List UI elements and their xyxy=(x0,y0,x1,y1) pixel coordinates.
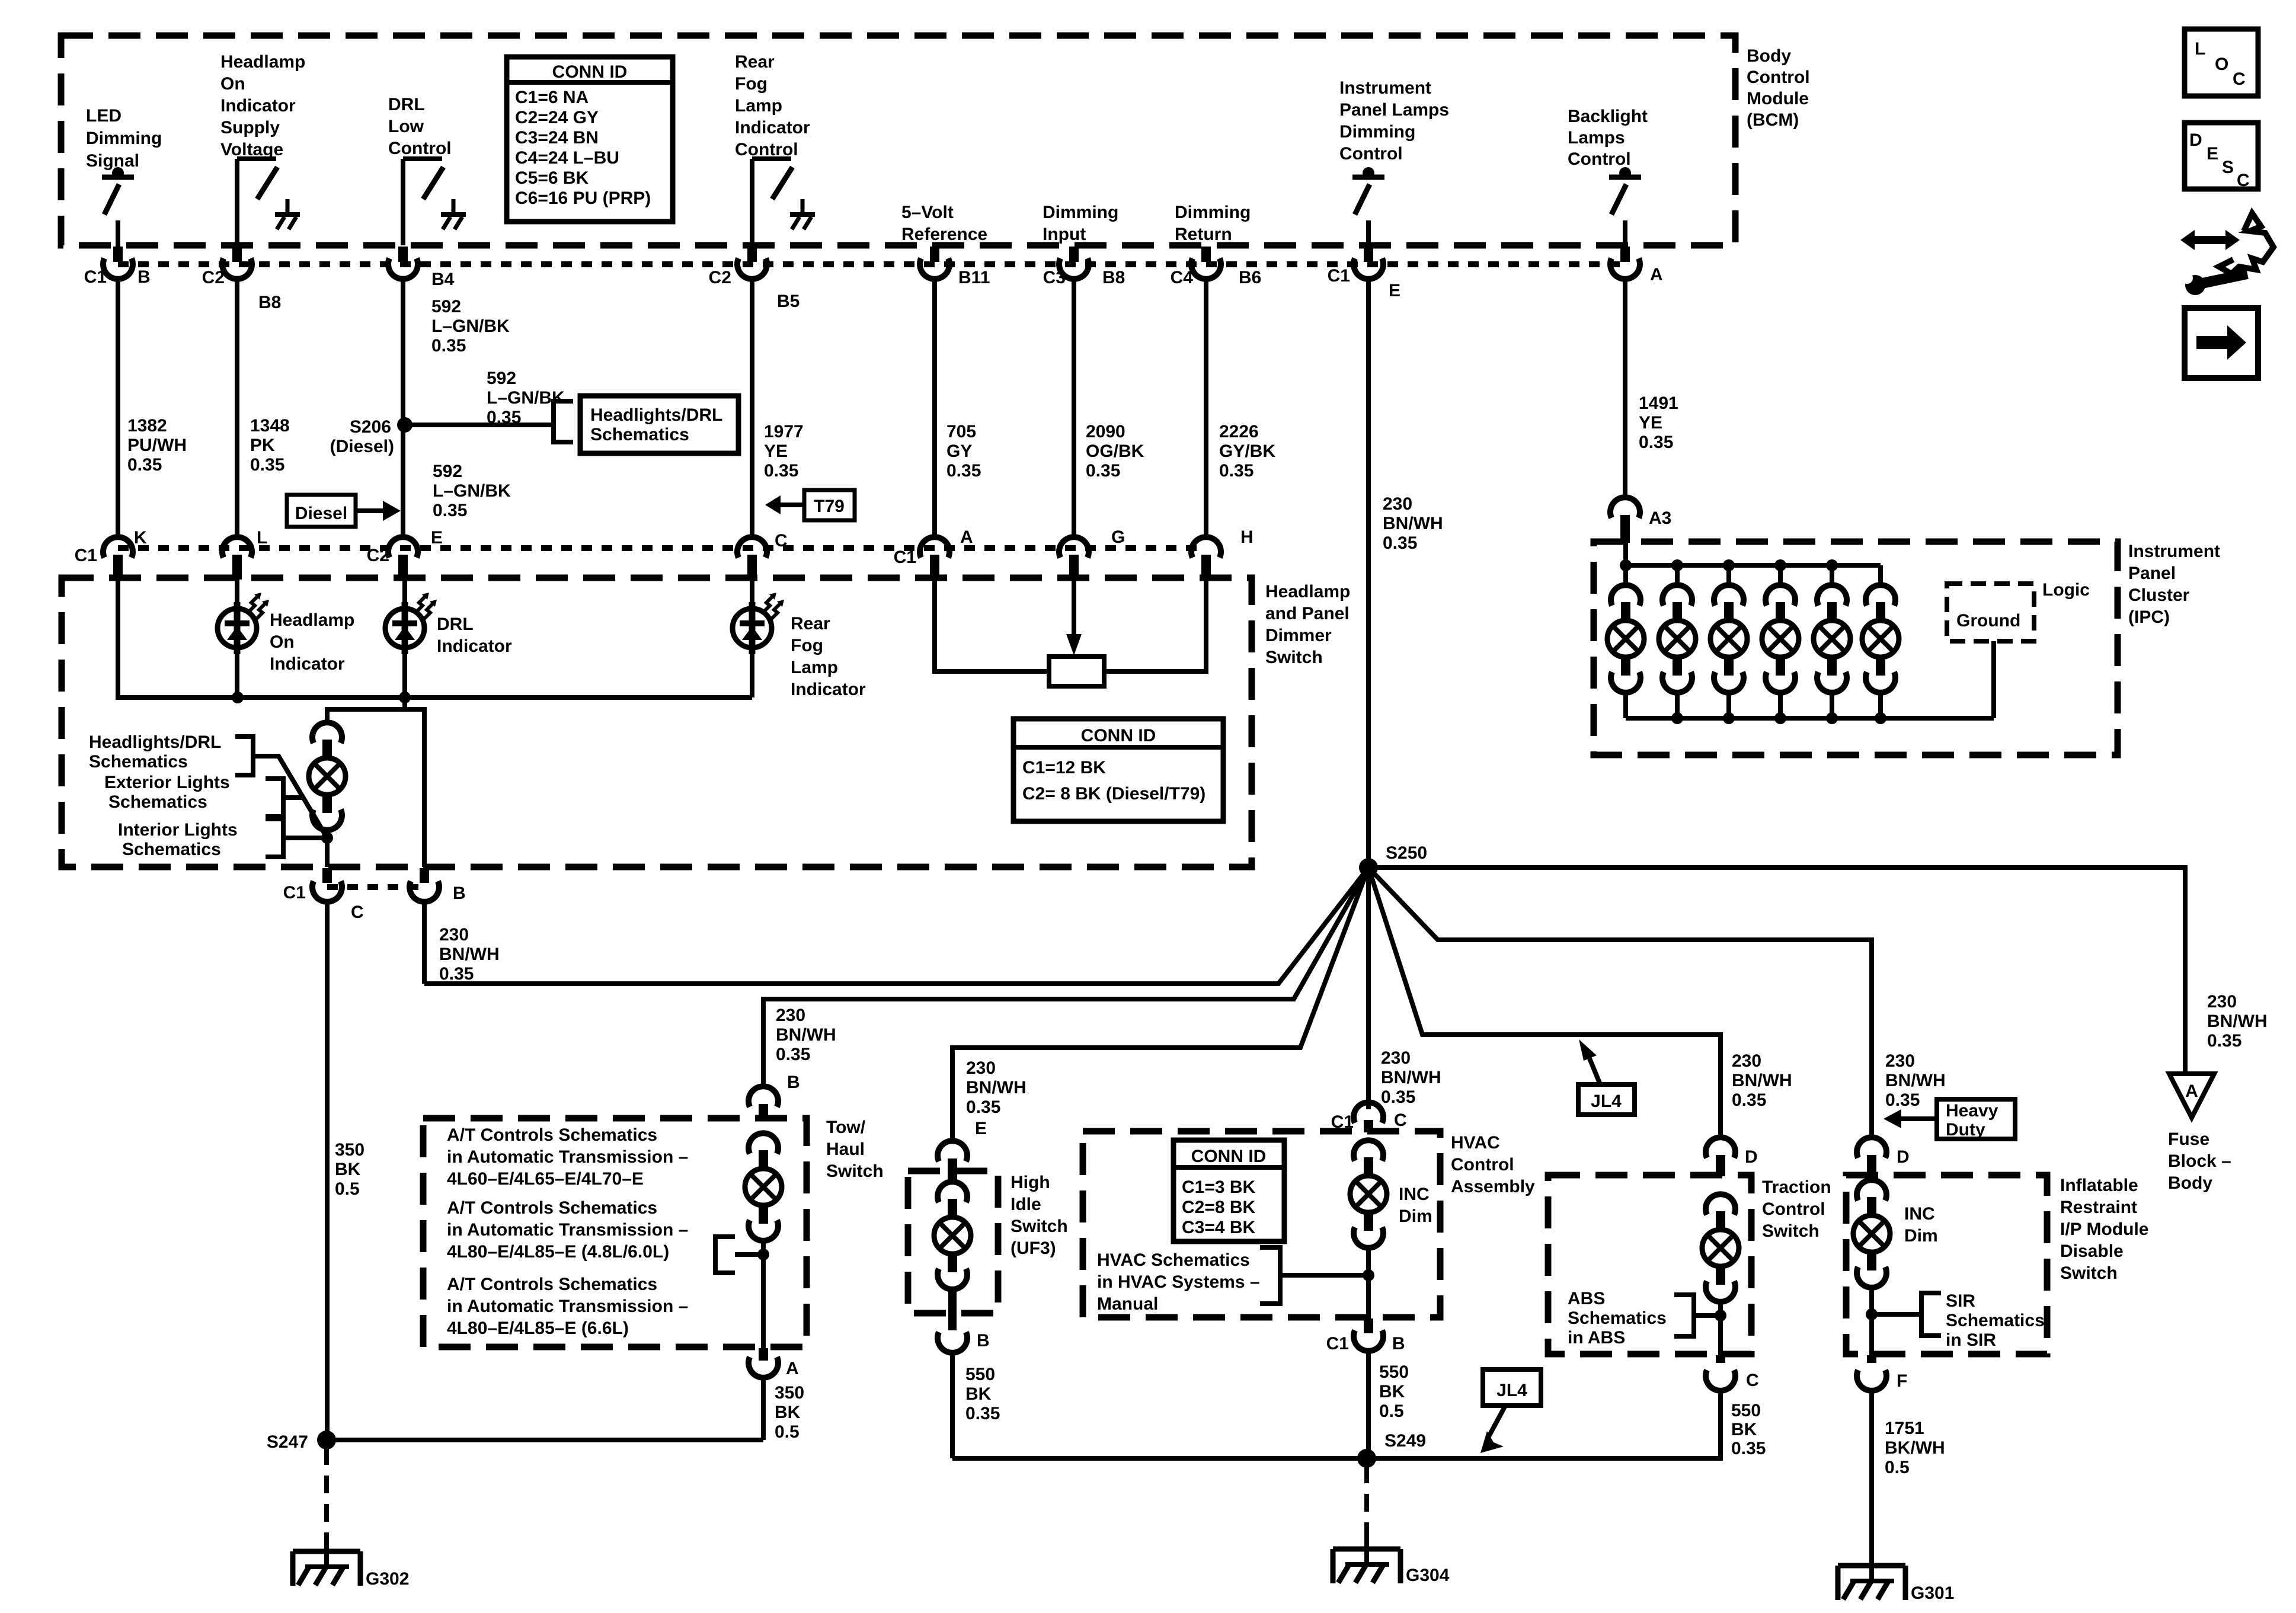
svg-text:C: C xyxy=(775,531,788,551)
svg-text:Dimming: Dimming xyxy=(1339,122,1415,142)
svg-text:1348: 1348 xyxy=(250,416,290,436)
connector pin K (dimmer switch row) xyxy=(103,537,133,580)
wire 350 BK to S247 bus xyxy=(761,1377,766,1440)
svg-text:C: C xyxy=(2237,171,2250,190)
svg-text:Dimmer: Dimmer xyxy=(1265,626,1332,645)
svg-text:A: A xyxy=(960,527,973,547)
svg-text:BN/WH: BN/WH xyxy=(776,1025,836,1045)
wire from interior bracket to node xyxy=(283,836,327,840)
svg-text:JL4: JL4 xyxy=(1496,1381,1527,1400)
forward arrow legend icon xyxy=(2185,308,2258,378)
connector row 1 dotted harness line xyxy=(118,261,1625,267)
svg-text:0.35: 0.35 xyxy=(1731,1439,1766,1458)
svg-text:Supply: Supply xyxy=(220,118,280,137)
svg-text:230: 230 xyxy=(439,925,469,945)
bracket for ABS schematics xyxy=(1674,1295,1694,1336)
svg-text:L–GN/BK: L–GN/BK xyxy=(433,481,511,501)
svg-text:Body: Body xyxy=(2168,1173,2212,1193)
CONN ID table (dimmer switch) xyxy=(1013,719,1223,821)
wire below HVAC lamp xyxy=(1366,1247,1371,1318)
IPC lamp return bus xyxy=(1626,716,1994,721)
svg-text:Switch: Switch xyxy=(826,1161,884,1181)
Exterior Lights Schematics reference label xyxy=(104,773,230,812)
High Idle Switch dashed box xyxy=(908,1171,998,1313)
svg-text:YE: YE xyxy=(764,441,788,461)
svg-text:C3=4 BK: C3=4 BK xyxy=(1182,1218,1256,1237)
svg-text:D: D xyxy=(1897,1147,1910,1167)
wire 1491 YE (backlight lamps control) xyxy=(1623,279,1627,497)
svg-text:H: H xyxy=(1240,527,1253,547)
svg-text:E: E xyxy=(2207,144,2218,164)
svg-text:Tow/: Tow/ xyxy=(826,1118,866,1137)
svg-text:Module: Module xyxy=(1747,89,1809,108)
svg-text:Fog: Fog xyxy=(735,74,768,94)
wire 550 BK from HVAC to S249 xyxy=(1366,1350,1371,1458)
svg-text:BK: BK xyxy=(965,1384,992,1404)
connector row 2 dotted harness line xyxy=(118,545,1206,551)
junction on bus at DRL indicator xyxy=(399,692,411,703)
bracket to Headlights/DRL Schematics reference box xyxy=(554,401,573,442)
BCM label xyxy=(1747,46,1810,130)
svg-text:Block –: Block – xyxy=(2168,1151,2231,1171)
connector pin E (dimmer switch row) xyxy=(388,537,418,580)
svg-text:230: 230 xyxy=(966,1058,996,1078)
connector pin B8 (BCM row) xyxy=(1059,247,1089,279)
svg-text:550: 550 xyxy=(1731,1401,1761,1420)
wire from HVAC bracket to lamp wire xyxy=(1280,1273,1368,1278)
svg-text:Dim: Dim xyxy=(1904,1226,1938,1246)
Headlamp On Indicator LED xyxy=(218,593,269,654)
Dimming Return label xyxy=(1175,203,1251,244)
svg-text:Lamps: Lamps xyxy=(1568,128,1625,148)
connector pin D (inflatable restraint) xyxy=(1857,1137,1886,1176)
Body Control Module (BCM) dashed box xyxy=(61,36,1735,245)
svg-text:A/T Controls Schematics: A/T Controls Schematics xyxy=(447,1125,657,1145)
svg-text:0.35: 0.35 xyxy=(127,455,162,475)
LED dimming signal switch (BCM internal) xyxy=(102,167,134,248)
svg-text:D: D xyxy=(2189,130,2202,150)
svg-text:Heavy: Heavy xyxy=(1946,1101,1998,1121)
svg-text:INC: INC xyxy=(1904,1204,1935,1224)
svg-text:4L80–E/4L85–E (6.6L): 4L80–E/4L85–E (6.6L) xyxy=(447,1318,629,1338)
wire 1382 PU/WH (LED dimming signal) xyxy=(116,279,120,537)
svg-text:OG/BK: OG/BK xyxy=(1086,441,1144,461)
connector pin A (tow/haul bottom) xyxy=(749,1348,778,1378)
IPC backlight lamp 6 xyxy=(1862,565,1899,718)
bracket for Headlights/DRL schematics xyxy=(235,737,253,775)
connector pin G (dimmer switch row) xyxy=(1059,537,1089,580)
svg-text:Switch: Switch xyxy=(2060,1263,2118,1283)
rear fog lamp driver switch with ground (BCM internal) xyxy=(752,159,815,245)
svg-text:C1: C1 xyxy=(1326,1334,1349,1353)
junction to SIR schematics bracket xyxy=(1866,1308,1878,1320)
row 2 pin labels xyxy=(75,527,1253,567)
svg-text:DRL: DRL xyxy=(437,615,474,634)
svg-text:C2: C2 xyxy=(367,546,389,565)
svg-text:A: A xyxy=(2185,1081,2198,1101)
connector C1 pin C (HVAC) xyxy=(1354,1102,1383,1132)
svg-text:G304: G304 xyxy=(1406,1566,1450,1585)
svg-text:Rear: Rear xyxy=(791,614,830,633)
svg-text:0.35: 0.35 xyxy=(2207,1031,2241,1051)
svg-text:G301: G301 xyxy=(1911,1583,1954,1603)
svg-text:C: C xyxy=(2233,69,2246,89)
Inflatable Restraint disable switch dashed box xyxy=(1846,1175,2047,1354)
splice S249 and bus xyxy=(952,1456,1723,1461)
svg-text:B: B xyxy=(1392,1334,1405,1353)
svg-text:Haul: Haul xyxy=(826,1140,865,1159)
bracket for Interior Lights schematics xyxy=(266,819,283,857)
svg-text:Exterior Lights: Exterior Lights xyxy=(104,773,230,792)
svg-text:350: 350 xyxy=(335,1140,364,1160)
svg-text:K: K xyxy=(134,528,147,548)
Diesel flag box with arrow xyxy=(287,495,401,527)
Fuse Block - Body label xyxy=(2168,1129,2231,1193)
Instrument Panel Lamps Dimming Control label xyxy=(1339,78,1449,164)
connector pin B4 (BCM row) xyxy=(388,247,418,279)
connector pin B (BCM row) xyxy=(103,247,133,279)
svg-text:Switch: Switch xyxy=(1762,1221,1819,1241)
svg-text:A: A xyxy=(786,1359,799,1378)
svg-text:BN/WH: BN/WH xyxy=(2207,1012,2268,1031)
svg-text:0.5: 0.5 xyxy=(1885,1458,1910,1477)
svg-text:I/P Module: I/P Module xyxy=(2060,1220,2148,1239)
wire from S250 to tow/haul switch xyxy=(763,868,1368,1086)
ABS Schematics reference label xyxy=(1568,1289,1667,1348)
DESC legend icon xyxy=(2185,123,2258,190)
fuse block terminal triangle A xyxy=(2169,1074,2214,1118)
IPC label xyxy=(2128,542,2220,627)
svg-text:Schematics: Schematics xyxy=(108,792,207,812)
svg-text:Backlight: Backlight xyxy=(1568,107,1648,126)
svg-text:230: 230 xyxy=(1732,1051,1761,1071)
svg-text:0.35: 0.35 xyxy=(946,461,981,481)
svg-text:CONN ID: CONN ID xyxy=(1081,726,1156,745)
svg-text:0.35: 0.35 xyxy=(1732,1090,1766,1110)
connector C1 pin B (HVAC bottom) xyxy=(1354,1318,1383,1351)
svg-text:0.5: 0.5 xyxy=(1379,1401,1404,1421)
A/T controls schematics references xyxy=(447,1125,688,1189)
230 BN/WH label (HVAC) xyxy=(1381,1048,1441,1107)
svg-text:BK: BK xyxy=(1379,1382,1405,1401)
svg-text:E: E xyxy=(431,528,443,548)
svg-text:Ground: Ground xyxy=(1956,611,2020,631)
svg-text:Headlamp: Headlamp xyxy=(220,52,305,72)
wire from S250 to fuse block (230 BN/WH) xyxy=(1368,868,2185,1074)
svg-text:Indicator: Indicator xyxy=(220,96,296,116)
svg-text:C3: C3 xyxy=(1043,268,1066,287)
svg-text:592: 592 xyxy=(487,369,516,388)
wire 230 BN/WH from BCM pin E xyxy=(1366,279,1371,1109)
svg-text:C1: C1 xyxy=(283,883,306,902)
svg-text:Manual: Manual xyxy=(1097,1294,1158,1314)
svg-text:B: B xyxy=(977,1331,990,1350)
dashed wire S249 to G304 xyxy=(1364,1465,1369,1532)
DRL Low Control label xyxy=(388,95,452,158)
svg-text:in Automatic Transmission –: in Automatic Transmission – xyxy=(447,1297,688,1316)
stub through box bottom xyxy=(948,1289,957,1330)
svg-text:Schematics: Schematics xyxy=(89,752,188,772)
svg-text:Indicator: Indicator xyxy=(735,118,810,137)
svg-text:ABS: ABS xyxy=(1568,1289,1605,1308)
wire from bracket to lamp wire xyxy=(735,1252,763,1257)
wire below traction lamp xyxy=(1718,1301,1723,1355)
svg-text:DRL: DRL xyxy=(388,95,425,114)
svg-text:A: A xyxy=(1650,265,1663,284)
svg-text:Assembly: Assembly xyxy=(1451,1177,1535,1196)
Instrument Panel Cluster dashed box xyxy=(1594,542,2118,755)
svg-text:Reference: Reference xyxy=(901,225,987,244)
IPC bus junctions xyxy=(1620,559,1632,571)
wire from SIR bracket to lamp wire xyxy=(1872,1312,1921,1317)
svg-text:HVAC Schematics: HVAC Schematics xyxy=(1097,1250,1250,1270)
svg-text:Instrument: Instrument xyxy=(2128,542,2220,561)
backlight lamps control switch (BCM internal) xyxy=(1609,167,1641,248)
230 BN/WH label (fuse block feed) xyxy=(2207,992,2268,1051)
svg-text:Diesel: Diesel xyxy=(295,504,347,523)
svg-text:Lamp: Lamp xyxy=(791,658,838,677)
svg-text:B8: B8 xyxy=(258,293,281,312)
IPC backlight lamp 2 xyxy=(1659,565,1696,718)
wire from ABS bracket to lamp wire xyxy=(1694,1313,1721,1318)
connector pin A (BCM row) xyxy=(1610,247,1640,279)
svg-text:350: 350 xyxy=(775,1383,804,1403)
connector pin E (high idle) xyxy=(938,1141,967,1182)
svg-text:in HVAC Systems –: in HVAC Systems – xyxy=(1097,1272,1260,1292)
svg-text:Input: Input xyxy=(1043,225,1086,244)
connector pin B (dimmer switch bottom) xyxy=(410,868,439,902)
svg-text:1491: 1491 xyxy=(1639,393,1678,413)
connector pin B8 (BCM row) xyxy=(222,247,252,279)
svg-text:C2= 8 BK (Diesel/T79): C2= 8 BK (Diesel/T79) xyxy=(1022,784,1205,804)
svg-text:550: 550 xyxy=(965,1365,995,1384)
svg-text:CONN ID: CONN ID xyxy=(1191,1147,1267,1166)
svg-text:BN/WH: BN/WH xyxy=(1732,1071,1792,1090)
svg-text:0.35: 0.35 xyxy=(1219,461,1253,481)
Headlamp and Panel Dimmer Switch label xyxy=(1265,582,1350,667)
svg-text:S247: S247 xyxy=(267,1432,308,1452)
inflatable restraint INC Dim lamp xyxy=(1853,1180,1890,1288)
svg-text:Dim: Dim xyxy=(1399,1206,1432,1226)
svg-text:HVAC: HVAC xyxy=(1451,1133,1500,1153)
svg-text:Schematics: Schematics xyxy=(590,425,689,444)
svg-text:Headlights/DRL: Headlights/DRL xyxy=(590,405,722,425)
wire 350 BK from pin C to S247 xyxy=(325,901,330,1440)
svg-text:705: 705 xyxy=(946,422,976,441)
svg-text:Duty: Duty xyxy=(1946,1120,1985,1140)
svg-text:550: 550 xyxy=(1379,1362,1409,1382)
svg-text:230: 230 xyxy=(2207,992,2237,1012)
svg-text:PK: PK xyxy=(250,436,275,455)
wire below inflatable lamp xyxy=(1869,1287,1874,1355)
HVAC Schematics reference label xyxy=(1097,1250,1260,1314)
wire 705 GY (5-volt reference) xyxy=(932,279,937,537)
junction to A/T schematics bracket xyxy=(757,1249,769,1260)
SIR Schematics reference label xyxy=(1946,1291,2045,1350)
indicator ground bus xyxy=(118,695,752,700)
svg-text:C1: C1 xyxy=(84,267,107,287)
svg-text:0.5: 0.5 xyxy=(335,1179,360,1199)
svg-text:0.5: 0.5 xyxy=(775,1422,800,1442)
svg-text:BK/WH: BK/WH xyxy=(1885,1438,1945,1458)
svg-text:Rear: Rear xyxy=(735,52,775,72)
panel illumination lamp (dimmer switch) xyxy=(309,722,346,830)
svg-text:0.35: 0.35 xyxy=(1381,1087,1415,1107)
svg-text:B: B xyxy=(453,884,466,903)
headlamp on indicator wire xyxy=(235,579,239,612)
Headlamp On Indicator Supply Voltage label xyxy=(220,52,305,159)
svg-text:GY: GY xyxy=(946,441,972,461)
CONN ID table (HVAC) xyxy=(1173,1140,1284,1241)
rear fog indicator wire xyxy=(750,579,754,612)
service info icon (arrows and wrench) xyxy=(2180,213,2273,295)
svg-text:in SIR: in SIR xyxy=(1946,1330,1996,1350)
ground G301 xyxy=(1838,1566,1954,1603)
svg-text:G: G xyxy=(1111,527,1125,547)
svg-text:2090: 2090 xyxy=(1086,422,1125,441)
svg-text:O: O xyxy=(2215,55,2228,74)
svg-text:in Automatic Transmission –: in Automatic Transmission – xyxy=(447,1147,688,1167)
svg-text:E: E xyxy=(975,1119,987,1138)
Dimming Input label xyxy=(1043,203,1118,244)
svg-text:(Diesel): (Diesel) xyxy=(330,437,394,456)
svg-text:(UF3): (UF3) xyxy=(1011,1238,1056,1258)
feed wire to panel illumination lamp and pin B xyxy=(327,709,424,867)
splice S247 and bus xyxy=(327,1438,763,1442)
svg-text:Headlights/DRL: Headlights/DRL xyxy=(89,732,221,752)
bracket for Exterior Lights schematics xyxy=(266,779,283,817)
svg-text:Traction: Traction xyxy=(1762,1177,1831,1197)
svg-text:B6: B6 xyxy=(1239,268,1261,287)
connector pin B (high idle bottom) xyxy=(938,1332,967,1353)
svg-text:2226: 2226 xyxy=(1219,422,1259,441)
svg-text:Body: Body xyxy=(1747,46,1791,66)
svg-text:1751: 1751 xyxy=(1885,1419,1924,1438)
connector pin B11 (BCM row) xyxy=(920,247,949,279)
svg-text:Return: Return xyxy=(1175,225,1232,244)
svg-text:0.35: 0.35 xyxy=(764,461,798,481)
wire 2226 GY/BK (dimming return) xyxy=(1204,279,1208,537)
LOC legend icon xyxy=(2185,29,2258,96)
svg-text:Switch: Switch xyxy=(1011,1217,1068,1236)
connector pin B5 (BCM row) xyxy=(737,247,767,279)
Heavy Duty flag box with arrow xyxy=(1884,1099,2015,1140)
connector pin B6 (BCM row) xyxy=(1191,247,1221,279)
svg-text:S249: S249 xyxy=(1384,1431,1426,1451)
instrument panel lamps dimming switch (BCM internal) xyxy=(1352,167,1384,248)
svg-text:Instrument: Instrument xyxy=(1339,78,1431,98)
svg-text:Indicator: Indicator xyxy=(270,654,345,674)
svg-text:0.35: 0.35 xyxy=(776,1045,810,1064)
IPC backlight lamp 3 xyxy=(1710,565,1747,718)
wire from K pin down to indicator bus xyxy=(116,579,120,700)
svg-text:Inflatable: Inflatable xyxy=(2060,1176,2138,1195)
splice S250 xyxy=(1359,858,1378,877)
connector pin C (traction bottom) xyxy=(1706,1355,1735,1391)
branch wire 592 to Headlights/DRL schematics xyxy=(405,423,554,427)
svg-text:(BCM): (BCM) xyxy=(1747,110,1799,130)
IPC lamp feed bus xyxy=(1626,543,1881,565)
svg-text:BN/WH: BN/WH xyxy=(1885,1071,1946,1090)
svg-text:Panel Lamps: Panel Lamps xyxy=(1339,100,1449,120)
svg-text:Interior Lights: Interior Lights xyxy=(118,820,238,840)
junction to HVAC schematics reference xyxy=(1363,1269,1374,1281)
JL4 flag box (traction feed) with arrow xyxy=(1578,1039,1635,1115)
HVAC INC Dim lamp xyxy=(1350,1140,1387,1248)
svg-text:JL4: JL4 xyxy=(1591,1092,1622,1111)
Backlight Lamps Control label xyxy=(1568,107,1648,169)
wire from S250 to traction control switch xyxy=(1368,868,1721,1137)
connector pin D (traction) xyxy=(1706,1137,1735,1176)
svg-text:D: D xyxy=(1745,1147,1758,1167)
connector pin H (dimmer switch row) xyxy=(1191,537,1221,580)
tow/haul illumination lamp xyxy=(745,1133,782,1241)
IPC backlight lamp 1 xyxy=(1607,565,1644,718)
wire 550 BK from traction to S249 bus xyxy=(1718,1390,1723,1458)
svg-text:High: High xyxy=(1011,1173,1050,1192)
svg-text:A/T Controls Schematics: A/T Controls Schematics xyxy=(447,1198,657,1218)
svg-text:0.35: 0.35 xyxy=(433,501,467,520)
svg-text:On: On xyxy=(270,632,295,652)
svg-text:BN/WH: BN/WH xyxy=(1381,1068,1441,1087)
Rear Fog Lamp Indicator LED xyxy=(733,593,784,654)
svg-text:Fuse: Fuse xyxy=(2168,1129,2209,1149)
svg-text:PU/WH: PU/WH xyxy=(127,436,187,455)
svg-text:B11: B11 xyxy=(958,268,990,287)
svg-text:592: 592 xyxy=(431,297,461,316)
connector A3 (IPC) xyxy=(1610,497,1640,543)
svg-text:C4=24 L–BU: C4=24 L–BU xyxy=(515,148,619,168)
svg-text:0.35: 0.35 xyxy=(1639,433,1673,452)
svg-text:B: B xyxy=(137,267,151,287)
svg-text:0.35: 0.35 xyxy=(439,964,474,984)
svg-text:Restraint: Restraint xyxy=(2060,1198,2137,1217)
svg-text:E: E xyxy=(1389,281,1400,300)
connector pin C (dimmer switch bottom) xyxy=(312,868,342,902)
wire from S250 to dimmer pin B xyxy=(424,868,1368,984)
svg-text:1382: 1382 xyxy=(127,416,167,436)
svg-text:C2=8 BK: C2=8 BK xyxy=(1182,1198,1256,1217)
svg-text:C: C xyxy=(1394,1110,1407,1130)
svg-text:A3: A3 xyxy=(1649,508,1671,528)
svg-text:L: L xyxy=(2195,39,2205,59)
svg-text:in Automatic Transmission –: in Automatic Transmission – xyxy=(447,1220,688,1240)
svg-text:in ABS: in ABS xyxy=(1568,1328,1625,1348)
JL4 flag box (S249) with arrow xyxy=(1480,1369,1541,1453)
dotted line between pins C and B xyxy=(327,884,424,890)
DRL low control driver switch with ground (BCM internal) xyxy=(403,159,466,245)
svg-text:0.35: 0.35 xyxy=(487,408,521,427)
svg-text:C2=24 GY: C2=24 GY xyxy=(515,108,599,127)
svg-text:C1: C1 xyxy=(894,548,916,567)
svg-text:Lamp: Lamp xyxy=(735,96,782,116)
wire 550 BK to S249 xyxy=(950,1352,955,1458)
wire from exterior bracket to diagonal xyxy=(283,795,303,800)
svg-text:Dimming: Dimming xyxy=(1175,203,1251,222)
wire 592 L-GN/BK (DRL low control) xyxy=(401,279,405,537)
svg-text:0.35: 0.35 xyxy=(1885,1090,1920,1110)
T79 flag box with arrow xyxy=(765,490,855,520)
svg-text:Control: Control xyxy=(388,139,452,158)
svg-text:Logic: Logic xyxy=(2042,580,2090,600)
svg-text:Indicator: Indicator xyxy=(437,636,512,656)
wire from S250 to high idle switch xyxy=(952,868,1368,1141)
svg-text:230: 230 xyxy=(1383,494,1412,514)
row 1 pin labels xyxy=(84,265,1663,312)
wire from S250 to inflatable restraint disable switch xyxy=(1368,868,1872,1137)
wire below lamp to node xyxy=(325,830,330,867)
svg-text:(IPC): (IPC) xyxy=(2128,607,2170,627)
